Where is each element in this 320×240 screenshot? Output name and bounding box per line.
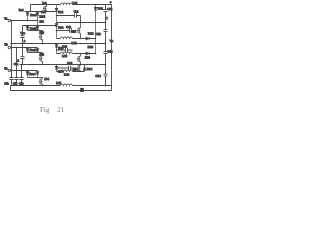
inductor L15 coil on bottom rail xyxy=(61,84,73,86)
capacitor C03 x105.5 xyxy=(104,52,108,75)
capacitor C02 x105.5 xyxy=(104,30,108,52)
node dot (21.5,70.5) xyxy=(21,70,23,72)
wire join y52.5 xyxy=(28,52,43,54)
node dot (95.5,43.5) xyxy=(95,43,97,45)
node dot (84.5,64.5) xyxy=(84,64,86,66)
node dot (95.5,38.5) xyxy=(95,38,97,40)
transistor JP2 xyxy=(39,31,43,44)
transistor SP2 xyxy=(77,23,81,39)
svg-text:Ds1: Ds1 xyxy=(58,10,64,14)
wire right bus x111.5 xyxy=(111,5,113,91)
svg-text:S11: S11 xyxy=(41,10,46,14)
svg-text:SP4: SP4 xyxy=(73,67,79,71)
svg-text:2M1: 2M1 xyxy=(39,14,45,18)
wire Tc line y70.5 xyxy=(11,70,38,72)
svg-text:D14: D14 xyxy=(87,67,93,71)
svg-text:L13: L13 xyxy=(62,54,68,58)
wire rail y64.5 xyxy=(20,64,106,66)
node dot (37.5,20.5) xyxy=(37,20,39,22)
capacitor Cs1 line y15.5 xyxy=(57,13,81,22)
node dot (56.5,15.5) xyxy=(56,15,58,17)
svg-text:Cfa: Cfa xyxy=(4,81,9,85)
wire coil line y71.5 xyxy=(57,71,85,73)
svg-text:21: 21 xyxy=(57,106,65,114)
svg-text:Fig: Fig xyxy=(40,106,50,114)
wire phase col x16.5 xyxy=(16,48,18,86)
node dot (95.5,4.5) xyxy=(95,4,97,6)
node dot (80.5,53.5) xyxy=(80,53,82,55)
wire bottom line y90.5 xyxy=(11,86,112,91)
svg-text:Cs2: Cs2 xyxy=(66,25,71,29)
wire join y30.5 xyxy=(28,30,43,32)
diode D12 horizontal xyxy=(86,37,89,40)
svg-text:+: + xyxy=(110,0,112,4)
svg-text:2: 2 xyxy=(24,39,26,43)
wire top rail y4.5 xyxy=(31,4,112,6)
node dot (95.5,53.5) xyxy=(95,53,97,55)
svg-text:Cs4: Cs4 xyxy=(67,61,72,65)
node dot (95.5,22.5) xyxy=(95,22,97,24)
svg-text:Vo: Vo xyxy=(110,39,114,43)
svg-text:Cfb: Cfb xyxy=(13,81,18,85)
capacitor Cs3 xyxy=(57,48,73,52)
transistor JP4 xyxy=(39,78,43,86)
capacitor Cm2 x22.5 xyxy=(20,26,24,44)
diode D01 x95.5 xyxy=(94,5,97,54)
svg-text:JP4: JP4 xyxy=(44,77,49,81)
svg-text:Dm2: Dm2 xyxy=(30,27,37,31)
svg-text:Cm: Cm xyxy=(20,31,25,35)
wire vertical x30.5 xyxy=(30,5,32,12)
node dot (27.5,20.5) xyxy=(27,20,29,22)
diode Ds2 x56.5 xyxy=(55,23,58,39)
diode Dm1 x37.5 xyxy=(36,12,39,26)
capacitor Cfb x16.5 xyxy=(14,78,18,80)
svg-text:D12: D12 xyxy=(88,31,94,35)
terminal Tb xyxy=(8,46,10,48)
diode Dm2b x37.5 xyxy=(36,26,39,31)
diode D13 horizontal xyxy=(86,52,89,55)
svg-text:L14: L14 xyxy=(64,72,70,76)
node dot (42.5,64.5) xyxy=(42,64,44,66)
node dot (105.5,43.5) xyxy=(105,43,107,45)
capacitor Cfc x21.5 xyxy=(19,78,23,80)
transistor SP4 xyxy=(77,65,81,72)
wire rail y22.5 xyxy=(57,22,106,24)
diode Dm3b x37.5 xyxy=(36,48,39,53)
svg-text:Cfc: Cfc xyxy=(19,81,24,85)
capacitor C04 x105.5 xyxy=(104,74,108,85)
node dot (16.5,47.5) xyxy=(16,47,18,49)
svg-text:Dr1: Dr1 xyxy=(19,8,24,12)
inductor L12 coil xyxy=(61,37,73,39)
svg-text:SP2: SP2 xyxy=(71,30,77,34)
node dot (42.5,85.5) xyxy=(42,85,44,87)
node dot (22.5,47.5) xyxy=(22,47,24,49)
svg-text:C02: C02 xyxy=(95,32,101,36)
node dot (56.5,30.5) xyxy=(56,30,58,32)
node dot (42.5,43.5) xyxy=(42,43,44,45)
wire Ta line y20.5 xyxy=(11,20,38,22)
node dot (80.5,64.5) xyxy=(80,64,82,66)
svg-text:Tc: Tc xyxy=(4,66,8,70)
capacitor Cs4 xyxy=(57,66,77,70)
capacitor C01 x105.5 xyxy=(104,5,108,30)
diode Ds1 x56.5 xyxy=(55,5,58,23)
inductor L11 coil xyxy=(61,3,73,5)
node dot (27.5,70.5) xyxy=(27,70,29,72)
node dot (80.5,43.5) xyxy=(80,43,82,45)
diode Dm2a x27.5 xyxy=(26,26,29,31)
svg-text:Tb: Tb xyxy=(4,42,8,46)
diode Ds4 x56.5 xyxy=(55,65,58,72)
svg-text:Ta: Ta xyxy=(4,16,8,20)
wire Tb line y47.5 xyxy=(11,47,38,49)
terminal Ta xyxy=(8,19,10,21)
diode Dm4a x27.5 xyxy=(26,71,29,78)
node dot (105.5,22.5) xyxy=(105,22,107,24)
wire join y77.5 xyxy=(28,77,43,79)
capacitor Cs2 xyxy=(57,28,77,32)
node dot (11.5,20.5) xyxy=(11,20,13,22)
svg-text:1: 1 xyxy=(106,17,108,20)
wire col x21.5 xyxy=(21,65,23,86)
diode Dr1 x27.5 xyxy=(26,12,29,21)
component load blob on y90.5 xyxy=(80,88,84,92)
svg-text:JP3: JP3 xyxy=(39,53,44,57)
svg-text:D01: D01 xyxy=(98,7,104,11)
svg-text:L12: L12 xyxy=(72,41,78,45)
svg-text:JP2: JP2 xyxy=(39,31,44,35)
inductor L13 coil xyxy=(61,52,73,54)
wire rail y43.5 xyxy=(11,43,106,45)
svg-text:Lr1: Lr1 xyxy=(42,1,47,5)
svg-text:C01: C01 xyxy=(107,7,113,11)
node dot (56.5,50) xyxy=(56,49,58,51)
svg-text:C03: C03 xyxy=(107,50,113,54)
wire bottom rail y85.5 xyxy=(11,85,112,87)
node dot (105.5,85.5) xyxy=(105,85,107,87)
node dot (80.5,22.5) xyxy=(80,22,82,24)
node dot (37.5,25.5) xyxy=(37,25,39,27)
transistor JP3 xyxy=(39,53,43,65)
node dot (105.5,64.5) xyxy=(105,64,107,66)
diode Ds3 x56.5 xyxy=(55,44,58,54)
capacitor Cm3 x22.5 xyxy=(20,44,24,65)
transistor SP3 xyxy=(77,54,81,65)
node dot (21.5,64.5) xyxy=(21,64,23,66)
diode Dm4b x37.5 xyxy=(36,71,39,78)
wire coil line y38.5 xyxy=(57,38,96,40)
wire rail y25.5 xyxy=(23,25,57,27)
wire rail y11.5 xyxy=(25,11,57,13)
diode Dm3a x27.5 xyxy=(26,48,29,53)
svg-text:L11: L11 xyxy=(73,1,78,5)
terminal Tc xyxy=(8,69,10,71)
node dot (22.5,43.5) xyxy=(22,43,24,45)
transistor S11 xyxy=(43,5,47,12)
svg-text:Dm1: Dm1 xyxy=(30,13,37,17)
svg-text:Cs1: Cs1 xyxy=(74,10,79,14)
wire coil line y53.5 xyxy=(57,53,96,55)
wire phase col x11.5 xyxy=(11,21,13,86)
svg-text:C04: C04 xyxy=(95,74,101,78)
svg-text:D13: D13 xyxy=(88,45,94,49)
node dot (27.5,25.5) xyxy=(27,25,29,27)
svg-text:Cs3: Cs3 xyxy=(62,45,67,49)
svg-text:JP1: JP1 xyxy=(39,20,44,24)
svg-text:Dm3: Dm3 xyxy=(30,48,37,52)
capacitor Cfa x11.5 xyxy=(9,78,13,80)
diode D14 vertical up xyxy=(83,65,86,72)
inductor L14 coil xyxy=(61,70,73,72)
node dot (27.5,47.5) xyxy=(27,47,29,49)
svg-text:Dm4: Dm4 xyxy=(29,72,36,76)
node dot (11.5,43.5) xyxy=(11,43,13,45)
node dot (80.5,38.5) xyxy=(80,38,82,40)
svg-text:Ds2: Ds2 xyxy=(58,26,64,30)
svg-text:SP3: SP3 xyxy=(85,55,91,59)
